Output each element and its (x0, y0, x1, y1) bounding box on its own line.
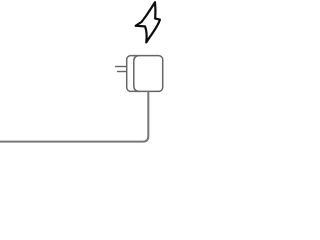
charger body silhouette (127, 56, 163, 92)
charger front-left inner edge (134, 56, 140, 92)
lightning bolt (136, 2, 160, 42)
wire from charger (0, 91, 148, 141)
prong lower (117, 71, 127, 73)
prong upper (115, 66, 127, 68)
